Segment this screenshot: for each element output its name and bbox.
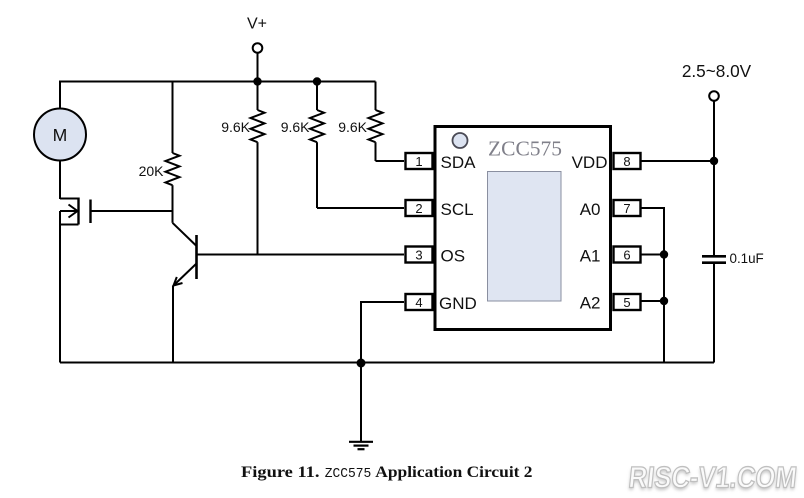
resistor R3 9.6K [369, 82, 383, 162]
svg-text:ZCC575: ZCC575 [325, 466, 372, 482]
svg-text:3: 3 [415, 248, 422, 263]
pin 5 box [614, 294, 641, 310]
node junction A2 [660, 297, 668, 305]
wire R2 to pin 2 [317, 207, 404, 209]
svg-text:GND: GND [439, 294, 477, 313]
pin 1 box [406, 153, 433, 169]
svg-text:9.6K: 9.6K [281, 119, 310, 135]
svg-text:M: M [53, 125, 68, 145]
pin 8 box [614, 153, 641, 169]
pin 2 box [406, 200, 433, 216]
caption Figure 11 [241, 462, 533, 482]
node junction R2/rail [313, 77, 321, 85]
svg-text:ZCC575: ZCC575 [488, 137, 562, 161]
pin 3 box [406, 247, 433, 263]
svg-text:7: 7 [623, 201, 630, 216]
VDD supply terminal [709, 91, 719, 101]
svg-text:RISC-V1.COM: RISC-V1.COM [627, 462, 798, 495]
wire supply down to capacitor [713, 101, 715, 255]
wire pin 8 VDD to supply [641, 160, 715, 162]
svg-text:2: 2 [415, 201, 422, 216]
svg-text:9.6K: 9.6K [338, 119, 367, 135]
svg-text:OS: OS [441, 246, 466, 265]
wire top rail [60, 82, 376, 109]
transistor Q1 (MOSFET) [60, 198, 91, 225]
wire pin 4 GND to rail [361, 302, 404, 363]
wire R3 to pin 1 [376, 160, 405, 162]
wire Q2 base / R1 to pin 3 [197, 254, 405, 256]
svg-text:20K: 20K [139, 163, 165, 179]
resistor R2 9.6K [310, 82, 324, 209]
V+ terminal [253, 43, 263, 53]
node junction ground tap [357, 359, 366, 368]
pin-1 indicator circle [453, 133, 468, 148]
IC U1 ZCC575 body [435, 127, 611, 330]
wire MOSFET source down to rail [59, 225, 61, 363]
node junction VDD [710, 157, 718, 165]
node junction A1 [660, 250, 668, 258]
svg-text:8: 8 [623, 154, 630, 169]
wire pin 6 to address bus [641, 254, 665, 256]
svg-text:4: 4 [415, 295, 422, 310]
capacitor C1 0.1uF [702, 256, 726, 262]
wire ground stem [360, 363, 362, 442]
wire pin 7 to address bus [641, 208, 665, 363]
ground [349, 442, 373, 449]
svg-text:0.1uF: 0.1uF [730, 251, 764, 266]
svg-text:2.5~8.0V: 2.5~8.0V [682, 61, 752, 81]
wire bottom ground rail [60, 362, 714, 364]
IC inner die rectangle [488, 172, 562, 302]
pin 7 box [614, 200, 641, 216]
resistor R1 9.6K [251, 82, 265, 255]
wire capacitor to rail [713, 263, 715, 363]
svg-text:SDA: SDA [441, 153, 477, 172]
svg-text:VDD: VDD [572, 153, 608, 172]
svg-text:A0: A0 [580, 200, 601, 219]
wire MOSFET gate lead [91, 210, 173, 212]
svg-text:Figure 11.: Figure 11. [241, 462, 320, 481]
watermark risc-v1.com [627, 462, 799, 497]
svg-text:Application Circuit 2: Application Circuit 2 [375, 462, 532, 481]
wire pin 5 to address bus [641, 300, 665, 302]
wire V+ stub [257, 53, 259, 82]
node junction V+/rail [253, 77, 261, 85]
pin 4 box [406, 294, 433, 310]
motor M1 [34, 109, 86, 161]
pin 6 box [614, 247, 641, 263]
svg-text:9.6K: 9.6K [221, 119, 250, 135]
svg-text:6: 6 [623, 248, 630, 263]
svg-text:5: 5 [623, 295, 630, 310]
svg-text:V+: V+ [247, 16, 267, 33]
resistor R4 20K [166, 82, 180, 223]
svg-text:SCL: SCL [441, 200, 474, 219]
svg-text:A2: A2 [580, 294, 601, 313]
svg-text:1: 1 [415, 154, 422, 169]
transistor Q2 (NPN) [173, 223, 197, 363]
wire motor to MOSFET drain [59, 161, 61, 200]
svg-text:A1: A1 [580, 247, 601, 266]
